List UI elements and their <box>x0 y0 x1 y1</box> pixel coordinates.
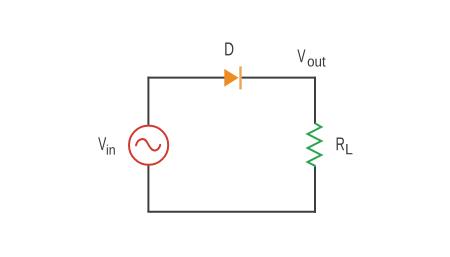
wire top-left segment <box>147 77 224 79</box>
label RL R <box>337 137 345 150</box>
label Vout V <box>297 49 305 62</box>
label D <box>225 43 233 56</box>
diode D <box>224 66 241 89</box>
resistor RL <box>308 123 322 167</box>
label Vin sub <box>107 145 115 155</box>
AC source V1 <box>129 126 168 165</box>
wire left-upper segment <box>147 77 149 126</box>
label Vin V <box>98 137 106 150</box>
label Vout sub <box>308 57 326 67</box>
wire right-lower segment <box>314 167 316 213</box>
wire bottom segment <box>147 211 316 213</box>
label RL sub <box>346 144 352 154</box>
wire left-lower segment <box>147 165 149 213</box>
wire right-upper segment <box>314 77 316 124</box>
wire top-right segment <box>242 77 315 79</box>
